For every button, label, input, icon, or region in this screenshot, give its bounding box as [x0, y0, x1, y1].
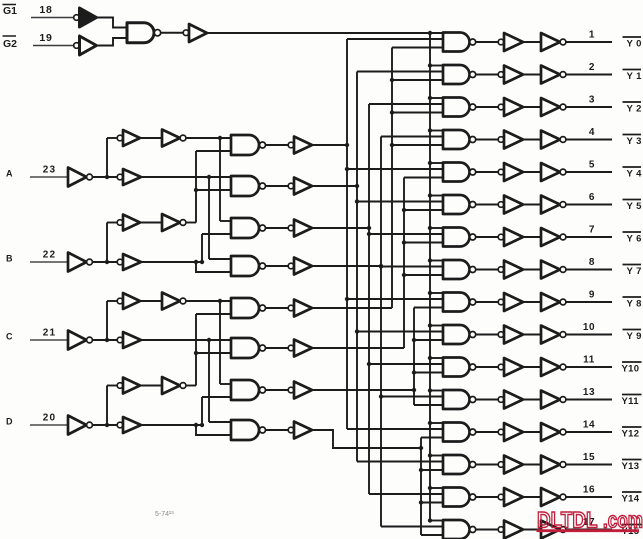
inverter Y14b [541, 488, 566, 506]
wire B-pair stub to NAND2 [196, 189, 231, 191]
wire N3 to buffer [266, 227, 289, 229]
node B-mid jog junction [194, 260, 198, 264]
svg-text:Y10: Y10 [622, 364, 640, 375]
wire bus-CD3 stub y470 [419, 468, 443, 472]
wire B-mid out [141, 261, 202, 263]
wire A pair middle [140, 137, 162, 139]
wire input D [30, 424, 68, 426]
inverter A1 [68, 168, 92, 187]
wire G2 inverter to enable NAND [97, 38, 128, 46]
wire bus-CD3 stub y535 [421, 534, 443, 536]
buffer D4 (straight) [117, 417, 141, 433]
svg-text:19: 19 [39, 32, 52, 44]
net Y13 output label [622, 460, 642, 473]
NAND gate N8 [231, 420, 266, 440]
wire Y7 NAND to buffer [476, 269, 498, 271]
output NAND Y9 [443, 325, 476, 344]
node B branch junction [105, 260, 109, 264]
svg-text:G2: G2 [3, 38, 17, 50]
svg-text:10: 10 [583, 322, 595, 333]
wire bus-CD3 vertical [420, 438, 422, 536]
wire Y0 buffers [523, 41, 541, 43]
wire Y14 NAND to buffer [476, 496, 498, 498]
wire Y15 NAND to buffer [476, 529, 498, 531]
NAND gate N5 [231, 298, 266, 318]
wire bus-CD1 stub y242 [402, 240, 443, 244]
wire bus-AB1 stub y71 [357, 71, 443, 73]
wire bus-AB1 feed [312, 185, 357, 187]
node D-mid jog junction [194, 423, 198, 427]
buffer A2 (pair first) [117, 130, 140, 146]
node bus-AB0 source junction [345, 143, 349, 147]
wire enable bus horizontal [207, 32, 443, 34]
output NAND Y8 [443, 293, 476, 312]
NAND gate N2 [231, 176, 266, 196]
node bus-AB2 source junction [367, 226, 371, 230]
wire bus-CD2 stub y372 [412, 370, 443, 374]
wire enable stub Y10 [428, 356, 443, 360]
wire Y14 buffers [523, 496, 541, 498]
wire enable stub Y8 [428, 291, 443, 295]
wire bus-AB0 feed [312, 144, 347, 146]
svg-text:14: 14 [583, 420, 595, 431]
inverter Y8b [541, 293, 566, 311]
wire D-mid out [141, 424, 202, 426]
buffer M7 [288, 382, 312, 399]
inverter D3 (pair second) [162, 377, 186, 394]
wire B inverter out [92, 261, 117, 263]
wire D-mid stub to NAND7 [202, 396, 231, 398]
wire bus-CD2 stub y307 [414, 307, 443, 309]
wire C-pair stub to NAND7 [220, 383, 231, 385]
svg-text:Y 9: Y 9 [627, 331, 642, 342]
svg-text:3: 3 [589, 95, 595, 106]
net Y3 output label [623, 135, 642, 148]
wire bus-AB3 vertical [380, 137, 382, 527]
wire bus-CD0 stub y47 [392, 47, 443, 49]
output NAND Y2 [443, 98, 476, 117]
wire bus-CD0 stub y145 [390, 143, 443, 147]
wire bus-CD2 stub y340 [412, 338, 443, 342]
wire G2 input [33, 45, 74, 47]
NAND gate N3 [231, 218, 266, 238]
wire C-pair vertical drop [219, 301, 221, 384]
buffer Y11a [498, 391, 523, 409]
wire output Y8 [566, 301, 612, 303]
wire bus-AB3 feed [312, 265, 381, 267]
wire G1 inverter to enable NAND [97, 18, 128, 28]
wire Y0 NAND to buffer [476, 41, 498, 43]
svg-text:G1: G1 [3, 5, 17, 17]
wire enable stub Y5 [428, 193, 443, 197]
buffer C2 (pair first) [117, 293, 140, 309]
NAND U3 enable gate [127, 23, 161, 43]
wire bus-CD2 vertical [413, 308, 415, 406]
buffer C4 (straight) [117, 332, 141, 348]
inverter A3 (pair second) [162, 130, 186, 147]
wire enable stub Y11 [428, 388, 443, 392]
wire Y8 buffers [523, 301, 541, 303]
svg-text:7: 7 [589, 225, 595, 236]
wire Y3 NAND to buffer [476, 139, 498, 141]
wire output Y11 [566, 399, 612, 401]
wire Y15 buffers [523, 529, 541, 531]
buffer Y2a [498, 98, 523, 116]
wire enable stub Y4 [428, 161, 443, 165]
wire bus-CD3 feed staircase [312, 430, 421, 448]
wire output Y14 [566, 496, 612, 498]
node B-pair tap [194, 188, 198, 192]
wire input C [30, 339, 68, 341]
svg-text:C: C [6, 332, 13, 342]
wire enable stub Y14 [428, 486, 443, 490]
wire bus-CD1 stub y177 [404, 177, 443, 179]
svg-text:DLTDL: DLTDL [537, 508, 598, 533]
net Y10 output label [622, 362, 642, 375]
output NAND Y15 [443, 520, 476, 539]
svg-text:2: 2 [589, 62, 595, 73]
output NAND Y6 [443, 228, 476, 247]
wire output Y0 [566, 41, 612, 43]
buffer Y0a [498, 33, 523, 51]
svg-text:Y 7: Y 7 [627, 266, 642, 277]
net G1 label [3, 5, 18, 18]
net Y9 output label [623, 330, 642, 343]
wire Y10 NAND to buffer [476, 366, 498, 368]
inverter Y5b [541, 196, 566, 214]
buffer M5 [288, 300, 312, 317]
wire N7 to buffer [266, 389, 289, 391]
wire bus-CD3 stub y502 [419, 500, 443, 504]
wire output Y2 [566, 106, 612, 108]
net Y12 output label [622, 427, 642, 440]
wire B-pair vertical rise [195, 151, 197, 223]
wire bus-AB2 stub y234 [367, 232, 443, 236]
wire D-pair vertical rise [195, 314, 197, 386]
wire enable stub Y12 [428, 421, 443, 425]
wire A-pair stub to NAND3 [220, 220, 231, 222]
wire Y6 buffers [523, 236, 541, 238]
wire Y6 NAND to buffer [476, 236, 498, 238]
svg-text:20: 20 [43, 413, 57, 424]
net Y7 output label [623, 265, 642, 278]
buffer B2 (pair first) [117, 215, 140, 231]
svg-text:9: 9 [589, 290, 595, 301]
wire bus-CD1 stub y275 [402, 273, 443, 277]
wire bus-CD1 stub y210 [402, 208, 443, 212]
wire bus-AB1 stub y201 [355, 199, 443, 203]
wire Y8 NAND to buffer [476, 301, 498, 303]
buffer M1 [288, 137, 312, 154]
inverter U1 (G1 input) [74, 8, 97, 27]
wire bus-AB1 stub y331 [355, 329, 443, 333]
NAND gate N6 [231, 338, 266, 358]
wire Y1 buffers [523, 74, 541, 76]
svg-text:18: 18 [39, 4, 52, 16]
svg-text:Y12: Y12 [622, 429, 640, 440]
wire output Y5 [566, 204, 612, 206]
wire bus-AB0 stub y169 [345, 167, 443, 171]
wire bus-AB1 stub y461 [357, 461, 443, 463]
net Y11 output label [622, 395, 642, 408]
wire enable stub Y2 [428, 96, 443, 100]
wire A-pair vertical drop [219, 138, 221, 221]
wire Y2 NAND to buffer [476, 106, 498, 108]
wire N5 to buffer [266, 307, 289, 309]
wire Y3 buffers [523, 139, 541, 141]
wire Y9 buffers [523, 334, 541, 336]
wire A branch vertical [106, 138, 108, 177]
wire C branch vertical [106, 301, 108, 340]
output NAND Y7 [443, 260, 476, 279]
wire output Y7 [566, 269, 612, 271]
svg-text:Y11: Y11 [622, 396, 640, 407]
node D-pair tap [194, 351, 198, 355]
wire D-pair stub to NAND6 [196, 352, 231, 354]
inverter Y10b [541, 358, 566, 376]
buffer U4 enable [183, 24, 207, 42]
wire B-pair out [186, 222, 196, 224]
wire D-pair stub to NAND5 [196, 313, 231, 315]
wire D-mid jog to NAND8 [196, 425, 231, 435]
svg-text:D: D [6, 417, 13, 427]
node C-pair tap [218, 299, 222, 303]
wire B-mid stub to NAND3 [202, 233, 231, 235]
wire Y5 buffers [523, 204, 541, 206]
wire bus-AB3 stub y136 [381, 136, 443, 138]
svg-text:Y 8: Y 8 [627, 299, 642, 310]
wire enable stub Y6 [428, 226, 443, 230]
wire enable stub Y1 [428, 63, 443, 67]
buffer Y10a [498, 358, 523, 376]
svg-text:Y 2: Y 2 [627, 104, 642, 115]
wire enable stub Y13 [428, 453, 443, 457]
wire Y11 NAND to buffer [476, 399, 498, 401]
wire bus-AB3 stub y266 [379, 264, 443, 268]
wire N4 to buffer [266, 265, 289, 267]
wire output Y6 [566, 236, 612, 238]
net Y6 output label [623, 232, 642, 245]
wire C inverter out [92, 339, 117, 341]
buffer M4 [288, 258, 312, 275]
wire B-pair stub to NAND1 [196, 150, 231, 152]
wire A inverter out [92, 176, 117, 178]
wire bus-CD1 vertical [403, 178, 405, 349]
svg-text:Y 0: Y 0 [627, 39, 642, 50]
svg-text:16: 16 [583, 485, 595, 496]
wire bus-AB0 stub y429 [347, 428, 443, 430]
wire input A [30, 176, 68, 178]
node enable bus tap [428, 31, 432, 35]
wire Y4 NAND to buffer [476, 171, 498, 173]
wire N6 to buffer [266, 347, 289, 349]
wire C-mid to NAND6 [141, 339, 231, 341]
buffer Y12a [498, 423, 523, 441]
wire D branch vertical [106, 386, 108, 426]
wire bus-AB2 stub y364 [367, 362, 443, 366]
svg-text:22: 22 [43, 250, 57, 261]
wire Y2 buffers [523, 106, 541, 108]
wire D-mid vertical rise [201, 397, 203, 425]
svg-text:8: 8 [589, 257, 595, 268]
wire G1 input [31, 17, 74, 19]
wire output Y13 [566, 464, 612, 466]
wire bus-CD2 stub y405 [414, 404, 443, 406]
svg-text:23: 23 [43, 165, 57, 176]
net Y0 output label [623, 37, 642, 50]
svg-text:Y 3: Y 3 [627, 136, 642, 147]
inverter B3 (pair second) [162, 214, 186, 231]
wire C-mid vertical drop [208, 340, 210, 422]
output NAND Y0 [443, 33, 476, 52]
wire D pair middle [140, 385, 162, 387]
wire enable stub Y7 [428, 258, 443, 262]
wire bus-CD0 feed [312, 307, 392, 309]
wire bus-CD0 stub y112 [390, 110, 443, 114]
svg-text:1: 1 [589, 30, 595, 41]
net Y5 output label [623, 200, 643, 213]
svg-text:Y14: Y14 [622, 494, 640, 505]
output NAND Y1 [443, 65, 476, 84]
output NAND Y13 [443, 455, 476, 474]
wire B pair middle [140, 222, 162, 224]
wire Y11 buffers [523, 399, 541, 401]
svg-text:B: B [6, 254, 13, 264]
node A-pair tap [218, 136, 222, 140]
buffer Y8a [498, 293, 523, 311]
node bus-AB1 source junction [355, 184, 359, 188]
buffer Y9a [498, 326, 523, 344]
wire bus-CD2 feed [312, 389, 414, 391]
inverter Y11b [541, 391, 566, 409]
wire N8 to buffer [266, 429, 289, 431]
wire output Y4 [566, 171, 612, 173]
wire Y4 buffers [523, 171, 541, 173]
net Y14 output label [622, 492, 642, 505]
wire Y7 buffers [523, 269, 541, 271]
buffer Y6a [498, 228, 523, 246]
wire A-mid to NAND2 [141, 176, 231, 178]
wire C pair input [107, 300, 117, 302]
buffer M8 [288, 422, 312, 439]
wire bus-AB3 stub y396 [379, 394, 443, 398]
net Y15 output label [622, 525, 642, 538]
inverter Y9b [541, 326, 566, 344]
wire bus-AB2 vertical [368, 104, 370, 494]
svg-text:A: A [6, 169, 13, 179]
svg-text:Y 1: Y 1 [627, 71, 643, 82]
svg-text:Y13: Y13 [622, 461, 640, 472]
wire Y12 NAND to buffer [476, 431, 498, 433]
wire bus-AB0 stub y39 [347, 38, 443, 40]
wire B branch vertical [106, 223, 108, 263]
wire bus-AB1 vertical [356, 72, 358, 462]
wire A-pair to NAND1 [186, 137, 231, 139]
buffer A4 (straight) [117, 169, 141, 185]
wire Y1 NAND to buffer [476, 74, 498, 76]
wire output Y12 [566, 431, 612, 433]
wire Y5 NAND to buffer [476, 204, 498, 206]
svg-text:5-74²³: 5-74²³ [155, 511, 174, 518]
buffer M6 [288, 340, 312, 357]
inverter C3 (pair second) [162, 293, 186, 310]
wire C pair middle [140, 300, 162, 302]
buffer M3 [288, 220, 312, 237]
node bus-AB3 source junction [379, 264, 383, 268]
buffer Y13a [498, 456, 523, 474]
inverter Y6b [541, 228, 566, 246]
node bus-CD2 source junction [412, 388, 416, 392]
wire enable stub Y3 [428, 128, 443, 132]
svg-text:6: 6 [589, 192, 595, 203]
svg-text:11: 11 [583, 355, 595, 366]
wire Y9 NAND to buffer [476, 334, 498, 336]
wire enable vertical bus [429, 33, 431, 521]
wire bus-CD3 stub y437 [421, 437, 443, 439]
wire A-mid stub to NAND4 [209, 258, 231, 260]
wire A pair input [107, 137, 117, 139]
wire D pair input [107, 385, 117, 387]
node bus-CD3 source junction [419, 446, 423, 450]
wire bus-AB3 stub y526 [381, 526, 443, 528]
wire Y10 buffers [523, 366, 541, 368]
output NAND Y11 [443, 390, 476, 409]
inverter U2 (G2 input) [74, 36, 97, 55]
wire bus-CD0 stub y80 [390, 78, 443, 82]
output NAND Y4 [443, 163, 476, 182]
buffer B4 (straight) [117, 254, 141, 270]
wire bus-AB2 stub y104 [369, 103, 443, 105]
node D branch junction [105, 423, 109, 427]
node B-mid tap [200, 260, 204, 264]
wire output Y1 [566, 74, 612, 76]
node A branch junction [105, 175, 109, 179]
svg-text:5: 5 [589, 160, 595, 171]
wire bus-AB0 stub y299 [345, 297, 443, 301]
wire B-mid vertical rise [201, 234, 203, 262]
wire output Y9 [566, 334, 612, 336]
wire C-pair to NAND5 [186, 300, 231, 302]
wire bus-CD1 feed [312, 347, 404, 349]
buffer M2 [288, 178, 312, 195]
inverter Y15b [541, 521, 566, 539]
inverter Y2b [541, 98, 566, 116]
output NAND Y5 [443, 195, 476, 214]
svg-text:13: 13 [583, 387, 595, 398]
wire output Y3 [566, 139, 612, 141]
inverter Y1b [541, 66, 566, 84]
node D-mid tap [200, 423, 204, 427]
wire D inverter out [92, 424, 117, 426]
wire bus-AB2 stub y494 [369, 493, 443, 495]
inverter Y4b [541, 163, 566, 181]
net Y2 output label [623, 102, 642, 115]
wire A-mid vertical drop [208, 177, 210, 259]
wire D-pair out [186, 385, 196, 387]
wire input B [30, 261, 68, 263]
output NAND Y3 [443, 130, 476, 149]
wire enable stub Y9 [428, 323, 443, 327]
svg-text:4: 4 [589, 127, 595, 138]
wire Y13 buffers [523, 464, 541, 466]
node C-mid tap [207, 338, 211, 342]
output NAND Y10 [443, 358, 476, 377]
buffer Y7a [498, 261, 523, 279]
output NAND Y14 [443, 488, 476, 507]
wire enable NAND to buffer [161, 32, 183, 34]
NAND gate N7 [231, 380, 266, 400]
inverter Y13b [541, 456, 566, 474]
